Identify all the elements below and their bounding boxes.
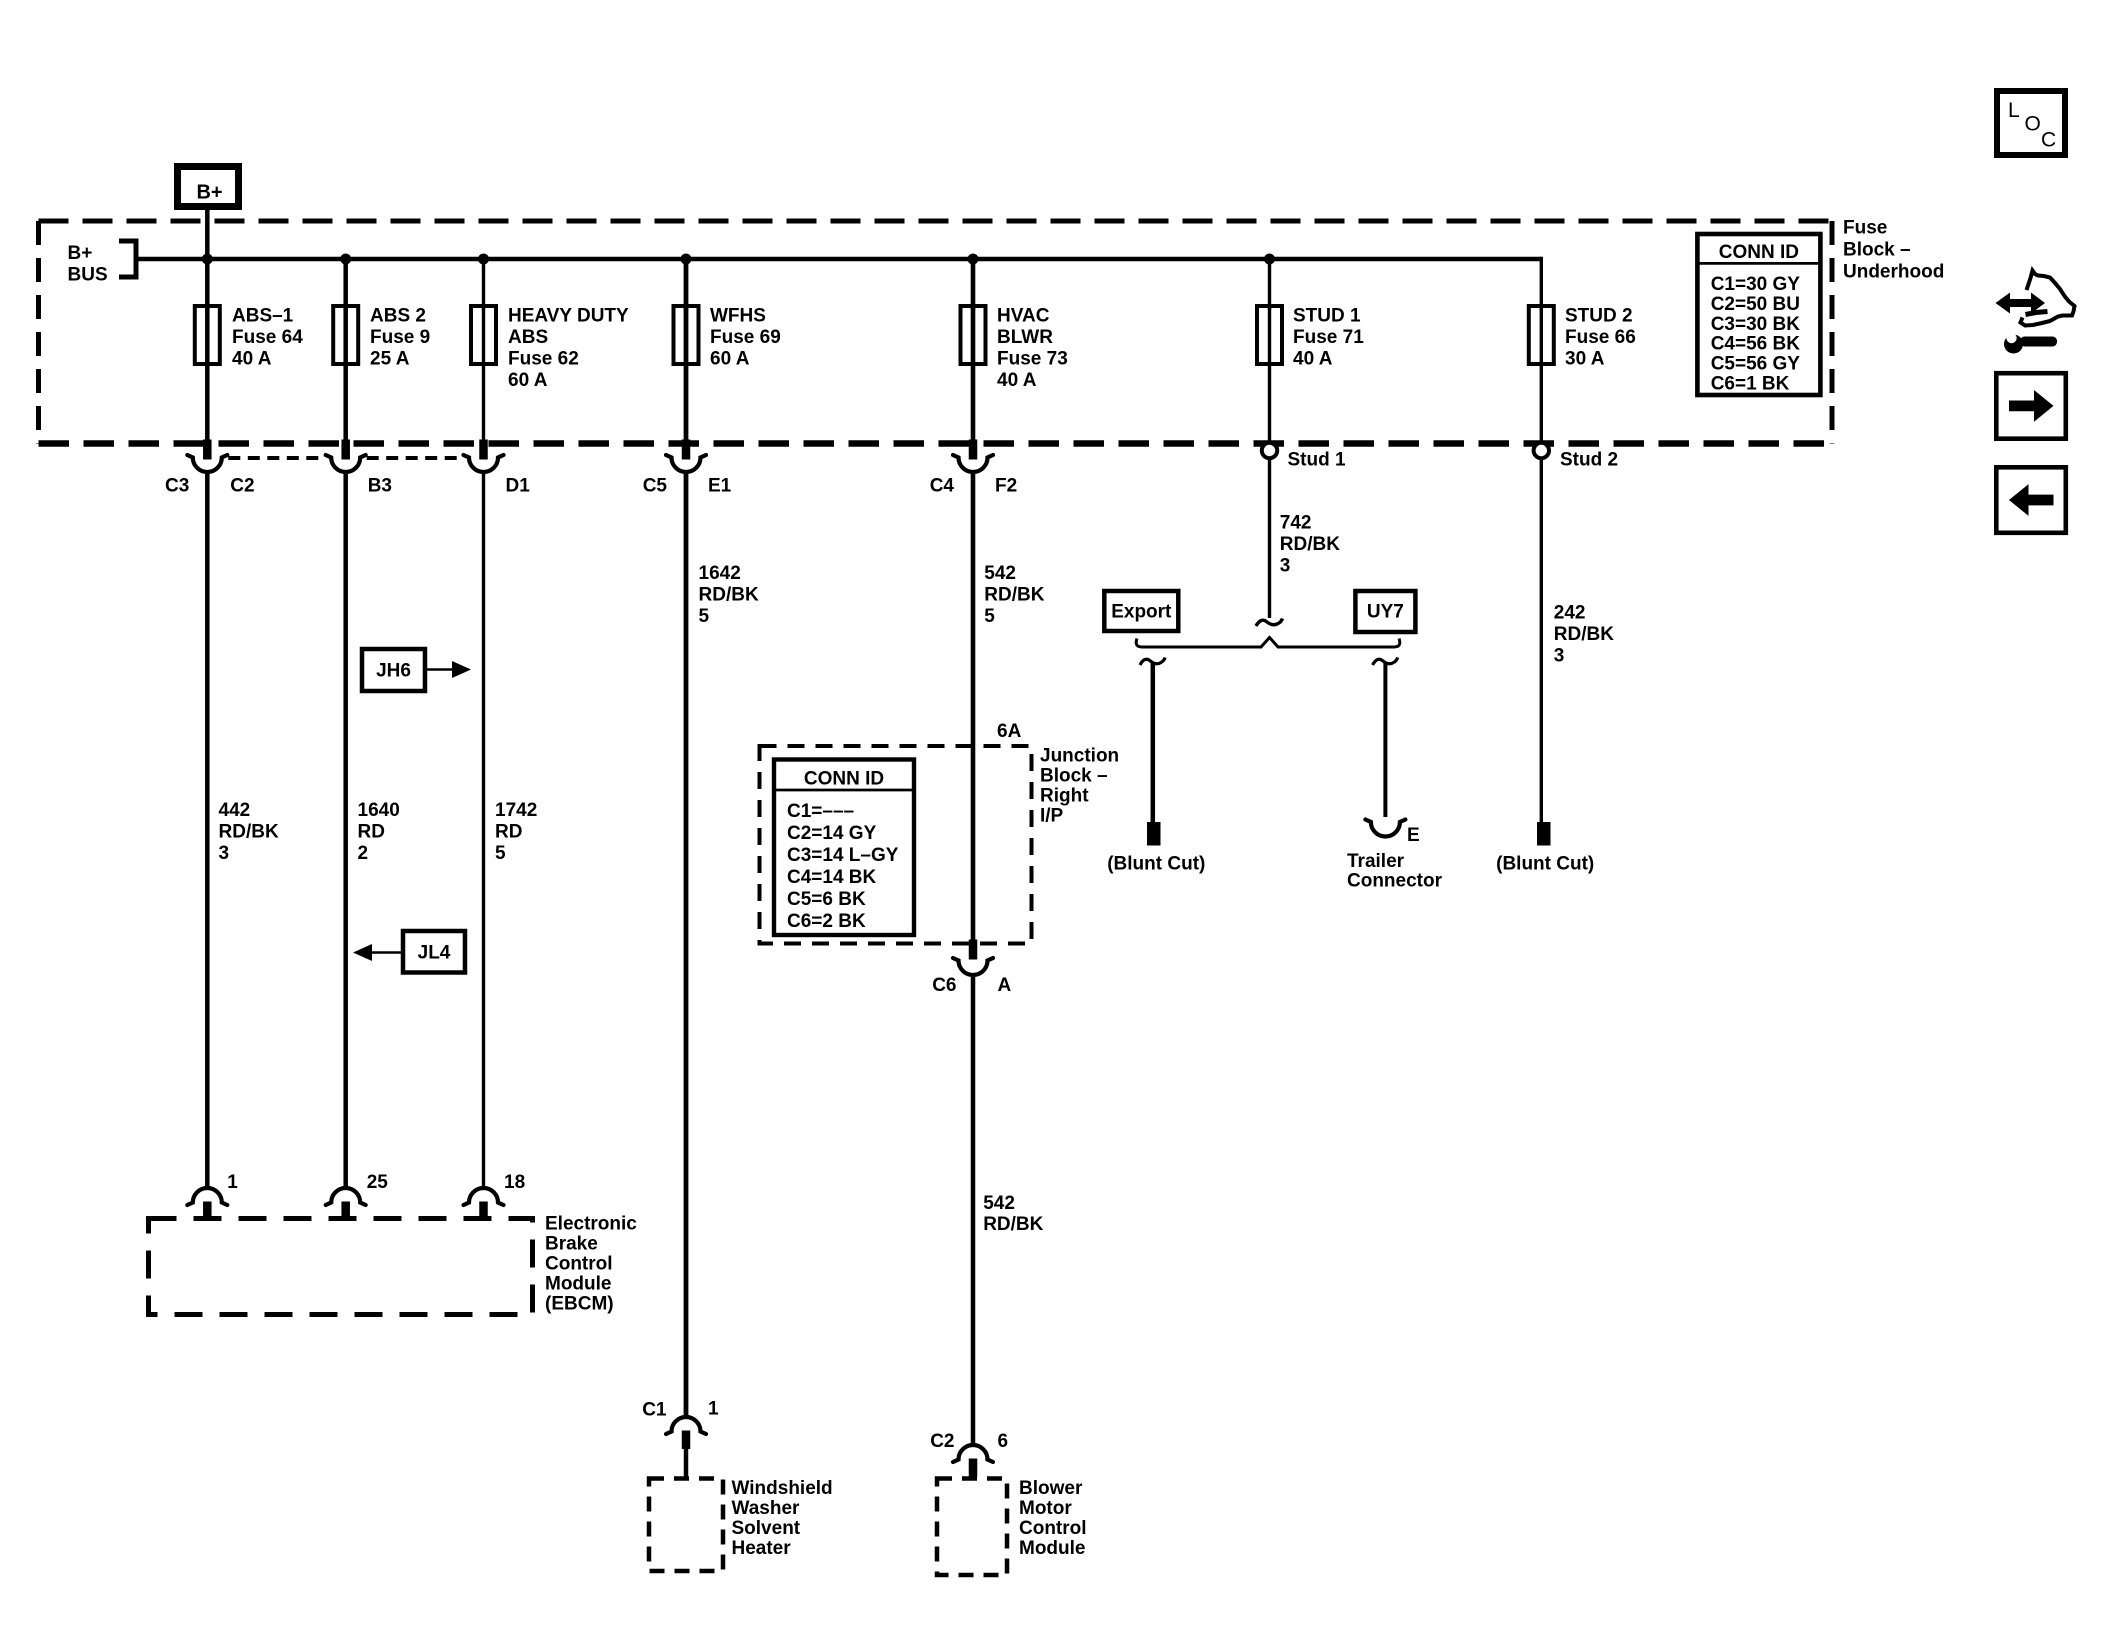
svg-text:1742: 1742 [495,800,537,821]
svg-text:6A: 6A [997,721,1022,742]
wire 242 RD/BK 3 [1540,458,1543,822]
module Blower Motor Control Module dashed box [937,1479,1007,1576]
option tag Export [1104,591,1178,631]
svg-text:C1=–––: C1=––– [787,801,854,822]
svg-text:C4: C4 [930,476,955,497]
svg-text:Fuse 66: Fuse 66 [1565,327,1636,348]
svg-text:RD: RD [495,822,522,843]
svg-text:ABS: ABS [508,327,548,348]
connector F2 terminal (fuse 73 output) [969,440,978,460]
svg-text:BLWR: BLWR [997,327,1053,348]
svg-text:C1=30 GY: C1=30 GY [1711,274,1801,295]
svg-text:Fuse 64: Fuse 64 [232,327,303,348]
fuse Fuse 64 ABS-1 [195,306,220,364]
junction node D on B+ bus [681,254,692,265]
wire B+ bus [136,257,1541,262]
branch hook squiggle (Export) [1140,658,1165,666]
wire [343,259,348,310]
junction node F on B+ bus [1264,254,1275,265]
fuse block underhood dashed boundary [39,219,1833,224]
splice end squiggle [1256,619,1283,627]
Stud 2 terminal [1534,443,1549,458]
svg-text:B+: B+ [196,182,222,204]
connector terminal 18 at EBCM [464,1188,504,1205]
svg-text:Stud 2: Stud 2 [1560,450,1618,471]
svg-text:E: E [1407,825,1420,846]
svg-text:RD/BK: RD/BK [983,1214,1043,1235]
wire from B+ symbol to bus [205,210,210,259]
fuse Fuse 69 WFHS [674,306,699,364]
connector E trailer connector [1365,820,1405,837]
wire to blunt cut [1151,663,1156,822]
svg-text:JH6: JH6 [376,661,411,682]
svg-text:C3=14 L–GY: C3=14 L–GY [787,845,899,866]
module Windshield Washer Solvent Heater dashed box [649,1479,723,1572]
fuse Fuse 9 ABS 2 [333,306,358,364]
module EBCM dashed box [149,1219,533,1315]
svg-text:C2=50 BU: C2=50 BU [1711,294,1800,315]
svg-text:ABS–1: ABS–1 [232,306,294,327]
fuse BLWR HVAC [961,306,986,364]
svg-text:18: 18 [504,1172,525,1193]
wire [1268,362,1271,444]
svg-text:B+: B+ [68,243,93,264]
svg-text:Stud 1: Stud 1 [1288,450,1346,471]
svg-text:JL4: JL4 [418,943,451,964]
connector C2 pin 6 at blower module [953,1445,993,1462]
fuse Fuse 71 STUD 1 [1257,306,1282,364]
svg-text:25: 25 [367,1172,389,1193]
fuse ABS HEAVY DUTY [471,306,496,364]
junction node C on B+ bus [478,254,489,265]
svg-text:Control: Control [545,1254,613,1275]
wire [971,362,976,444]
svg-text:742: 742 [1280,513,1312,534]
svg-text:40 A: 40 A [232,349,272,370]
svg-text:A: A [998,975,1012,996]
svg-text:CONN ID: CONN ID [804,769,884,790]
wire [482,362,485,444]
wire [343,362,348,444]
svg-text:Blower: Blower [1019,1478,1083,1499]
svg-text:RD/BK: RD/BK [219,822,279,843]
svg-text:Fuse 69: Fuse 69 [710,327,781,348]
wire 542 RD/BK [971,974,976,1445]
svg-text:RD/BK: RD/BK [699,585,759,606]
junction node B on B+ bus [340,254,351,265]
svg-text:C2=14 GY: C2=14 GY [787,823,877,844]
wire [684,1449,689,1479]
option brace [1136,638,1400,648]
option tag JL4 [403,931,465,973]
fuse F66 [1529,306,1554,364]
connector dashed link B3-D1 [367,456,463,460]
svg-text:Motor: Motor [1019,1498,1072,1519]
svg-text:I/P: I/P [1040,806,1064,827]
connector E1 terminal (fuse 69 output) [682,440,691,460]
back navigation icon [1996,467,2066,533]
svg-text:Brake: Brake [545,1234,598,1255]
svg-text:Right: Right [1040,786,1089,807]
svg-text:C6=2 BK: C6=2 BK [787,911,866,932]
junction block right I/P dashed box [760,746,1032,944]
svg-text:L: L [2008,99,2020,122]
svg-text:B3: B3 [368,476,392,497]
forward navigation icon [1996,373,2066,439]
svg-text:Module: Module [545,1274,612,1295]
svg-text:3: 3 [219,843,230,864]
svg-text:C5=6 BK: C5=6 BK [787,889,866,910]
svg-text:(Blunt Cut): (Blunt Cut) [1496,854,1594,875]
connector D1 terminal (fuse 62 output) [479,440,488,460]
svg-text:CONN ID: CONN ID [1719,242,1799,263]
svg-text:6: 6 [998,1431,1009,1452]
vehicle service icon [1996,271,2075,354]
blunt cut (Export branch) [1147,822,1161,846]
svg-text:C5: C5 [643,476,668,497]
connector B3 terminal (fuse 9 output) [341,440,350,460]
wire bus corner down to fuse 66 [1540,257,1543,310]
arrow JL4 to wire [372,951,403,953]
svg-text:60 A: 60 A [508,370,548,391]
junction node A on B+ bus [202,254,213,265]
svg-text:C1: C1 [642,1400,667,1421]
svg-text:Fuse 73: Fuse 73 [997,349,1068,370]
connector C2 terminal (fuse 64 output) [203,440,212,460]
svg-text:WFHS: WFHS [710,306,766,327]
svg-text:1: 1 [708,1399,719,1420]
svg-text:60 A: 60 A [710,349,750,370]
wire [684,259,689,310]
wire [684,362,689,444]
svg-text:(EBCM): (EBCM) [545,1294,614,1315]
svg-text:Solvent: Solvent [732,1518,801,1539]
svg-text:C6: C6 [932,975,956,996]
svg-text:C2: C2 [930,1431,954,1452]
svg-text:1642: 1642 [699,563,741,584]
connector C6 pin A at junction block output [969,940,978,960]
arrow JH6 to wire [425,668,453,670]
svg-text:Electronic: Electronic [545,1214,637,1235]
svg-text:O: O [2025,113,2041,136]
svg-text:242: 242 [1554,603,1586,624]
svg-text:C5=56 GY: C5=56 GY [1711,354,1801,375]
svg-text:30 A: 30 A [1565,349,1605,370]
wire 442 RD/BK 3 [205,474,210,1188]
option tag UY7 [1355,591,1415,632]
svg-text:Junction: Junction [1040,746,1119,767]
connector terminal 1 at EBCM [187,1188,227,1205]
Stud 1 terminal [1262,443,1277,458]
svg-text:Windshield: Windshield [732,1478,833,1499]
svg-text:Block –: Block – [1040,766,1108,787]
svg-text:3: 3 [1280,556,1291,577]
CONN ID table of junction block [774,760,914,936]
svg-text:Fuse 62: Fuse 62 [508,349,579,370]
wire [205,362,210,444]
svg-text:F2: F2 [995,476,1017,497]
svg-text:D1: D1 [506,476,531,497]
wire 1642 RD/BK 5 [684,474,689,1417]
svg-text:Connector: Connector [1347,871,1443,892]
svg-text:542: 542 [984,563,1016,584]
svg-text:542: 542 [983,1193,1015,1214]
svg-text:C3=30 BK: C3=30 BK [1711,314,1801,335]
svg-text:UY7: UY7 [1367,602,1404,623]
wire 542 RD/BK 5 [971,474,976,944]
branch hook squiggle (UY7) [1373,658,1398,666]
svg-text:5: 5 [495,843,506,864]
B+ BUS bracket [119,241,136,277]
svg-text:C6=1 BK: C6=1 BK [1711,374,1790,395]
svg-text:Fuse 9: Fuse 9 [370,327,430,348]
svg-text:5: 5 [699,606,710,627]
svg-text:25 A: 25 A [370,349,410,370]
svg-text:C3: C3 [165,476,189,497]
wire [971,259,976,310]
svg-text:Export: Export [1111,602,1172,623]
svg-text:Module: Module [1019,1538,1086,1559]
svg-text:RD: RD [358,822,385,843]
wire 1640 RD 2 [343,474,348,1188]
connector terminal 25 at EBCM [326,1188,366,1205]
svg-text:RD/BK: RD/BK [1280,534,1340,555]
svg-text:ABS 2: ABS 2 [370,306,426,327]
svg-text:40 A: 40 A [997,370,1037,391]
wire to trailer connector [1383,663,1387,817]
svg-text:5: 5 [984,606,995,627]
wire 1742 RD 5 [482,474,485,1188]
wire [1268,259,1271,310]
option tag JH6 [362,649,425,691]
svg-text:HVAC: HVAC [997,306,1050,327]
svg-text:1: 1 [227,1172,238,1193]
svg-text:RD/BK: RD/BK [1554,624,1614,645]
svg-text:2: 2 [358,843,369,864]
svg-text:3: 3 [1554,646,1565,667]
wire [1540,362,1543,444]
svg-text:BUS: BUS [68,265,108,286]
svg-text:C4=56 BK: C4=56 BK [1711,334,1801,355]
junction node E on B+ bus [968,254,979,265]
svg-text:C4=14 BK: C4=14 BK [787,867,877,888]
svg-text:Trailer: Trailer [1347,851,1405,872]
svg-text:1640: 1640 [358,800,400,821]
svg-text:RD/BK: RD/BK [984,585,1044,606]
svg-text:HEAVY DUTY: HEAVY DUTY [508,306,629,327]
CONN ID table of fuse block underhood [1697,234,1820,395]
svg-text:C: C [2041,129,2056,152]
wire 742 RD/BK 3 [1268,458,1271,618]
svg-text:STUD 2: STUD 2 [1565,306,1633,327]
svg-text:Fuse: Fuse [1843,218,1887,239]
svg-text:STUD 1: STUD 1 [1293,306,1361,327]
B+ battery feed symbol [178,167,239,207]
connector dashed link C2-B3 [228,456,324,460]
LOC legend box [1997,91,2065,155]
svg-text:40 A: 40 A [1293,349,1333,370]
connector C1 pin 1 at washer heater [666,1417,706,1434]
svg-text:442: 442 [219,800,251,821]
wire [482,259,485,310]
svg-text:Heater: Heater [732,1538,792,1559]
svg-text:E1: E1 [708,476,732,497]
blunt cut (Stud 2) [1537,822,1551,846]
svg-text:Control: Control [1019,1518,1087,1539]
svg-text:Underhood: Underhood [1843,262,1944,283]
svg-text:Fuse 71: Fuse 71 [1293,327,1364,348]
svg-text:(Blunt Cut): (Blunt Cut) [1107,854,1205,875]
svg-text:Washer: Washer [732,1498,801,1519]
svg-text:Block –: Block – [1843,240,1911,261]
svg-text:C2: C2 [230,476,254,497]
wire [205,259,210,310]
